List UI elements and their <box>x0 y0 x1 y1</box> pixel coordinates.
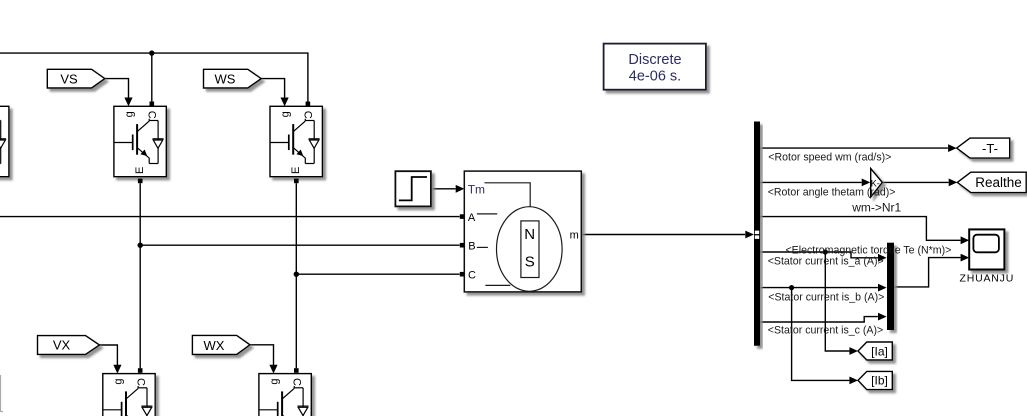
svg-text:C: C <box>468 269 476 281</box>
svg-text:N: N <box>524 226 535 243</box>
svg-text:<Rotor speed wm (rad/s)>: <Rotor speed wm (rad/s)> <box>768 152 891 164</box>
svg-text:<Stator current is_c (A)>: <Stator current is_c (A)> <box>768 324 883 336</box>
svg-text:m: m <box>570 229 579 241</box>
svg-text:<Rotor angle thetam (rad)>: <Rotor angle thetam (rad)> <box>768 187 896 199</box>
svg-text:[Ia]: [Ia] <box>871 344 888 358</box>
svg-text:4e-06 s.: 4e-06 s. <box>629 69 681 85</box>
svg-text:-T-: -T- <box>982 141 998 156</box>
svg-text:WX: WX <box>204 338 225 353</box>
svg-text:wm->Nr1: wm->Nr1 <box>851 201 901 215</box>
svg-text:ZHUANJU: ZHUANJU <box>959 273 1014 285</box>
svg-text:[Ib]: [Ib] <box>871 374 888 388</box>
svg-text:Tm: Tm <box>468 183 485 197</box>
svg-text:Realthe: Realthe <box>975 175 1022 190</box>
svg-text:VX: VX <box>53 338 71 353</box>
svg-text:<Stator current is_a (A)>: <Stator current is_a (A)> <box>768 255 884 267</box>
svg-text:B: B <box>468 240 475 252</box>
svg-text:<Stator current is_b (A)>: <Stator current is_b (A)> <box>768 291 884 303</box>
svg-text:VS: VS <box>60 71 78 86</box>
svg-text:A: A <box>468 212 476 224</box>
svg-text:S: S <box>525 254 535 271</box>
svg-text:Discrete: Discrete <box>628 52 681 68</box>
svg-text:WS: WS <box>215 71 236 86</box>
